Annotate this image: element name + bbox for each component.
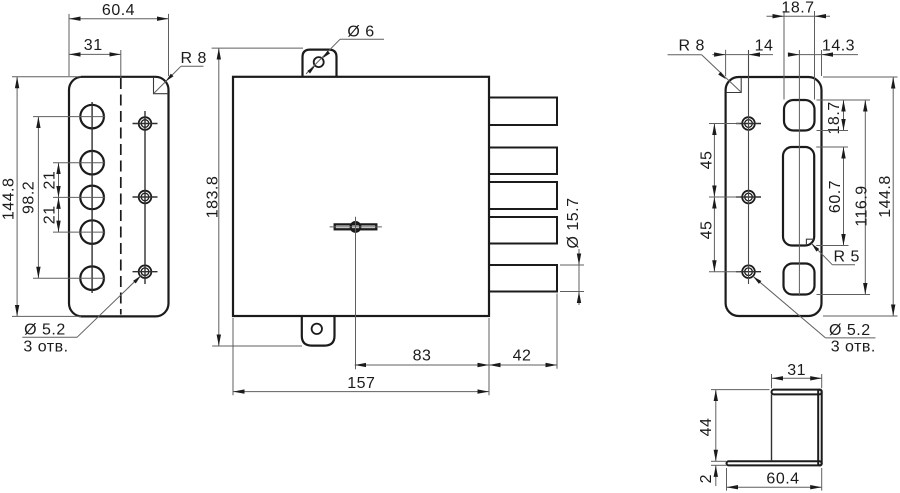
svg-text:31: 31 <box>787 362 806 379</box>
svg-text:116.9: 116.9 <box>854 185 871 226</box>
svg-text:21: 21 <box>42 171 59 190</box>
svg-text:R 8: R 8 <box>679 37 705 54</box>
svg-text:144.8: 144.8 <box>877 175 894 218</box>
svg-text:157: 157 <box>347 375 375 392</box>
svg-text:42: 42 <box>513 347 532 364</box>
svg-text:60.4: 60.4 <box>766 470 799 487</box>
svg-text:45: 45 <box>699 151 716 170</box>
svg-text:Ø 5.2: Ø 5.2 <box>24 321 66 338</box>
svg-text:144.8: 144.8 <box>0 178 17 221</box>
svg-text:44: 44 <box>698 418 715 437</box>
svg-text:18.7: 18.7 <box>826 101 843 134</box>
svg-text:R 8: R 8 <box>181 50 207 67</box>
svg-text:18.7: 18.7 <box>781 0 814 16</box>
svg-text:14.3: 14.3 <box>822 37 855 54</box>
svg-text:60.7: 60.7 <box>827 180 844 213</box>
svg-text:3 отв.: 3 отв. <box>23 339 68 356</box>
svg-text:98.2: 98.2 <box>21 181 38 214</box>
svg-text:Ø 5.2: Ø 5.2 <box>829 322 871 339</box>
svg-text:Ø 6: Ø 6 <box>347 24 374 41</box>
svg-text:21: 21 <box>42 205 59 224</box>
svg-text:83: 83 <box>413 347 432 364</box>
svg-text:183.8: 183.8 <box>205 176 222 219</box>
svg-text:3 отв.: 3 отв. <box>831 339 876 356</box>
svg-text:31: 31 <box>84 37 103 54</box>
svg-text:R 5: R 5 <box>834 249 860 266</box>
svg-text:60.4: 60.4 <box>102 2 135 19</box>
svg-text:14: 14 <box>755 37 774 54</box>
svg-text:Ø 15.7: Ø 15.7 <box>565 197 582 248</box>
svg-text:45: 45 <box>699 221 716 240</box>
svg-text:2: 2 <box>698 474 715 483</box>
